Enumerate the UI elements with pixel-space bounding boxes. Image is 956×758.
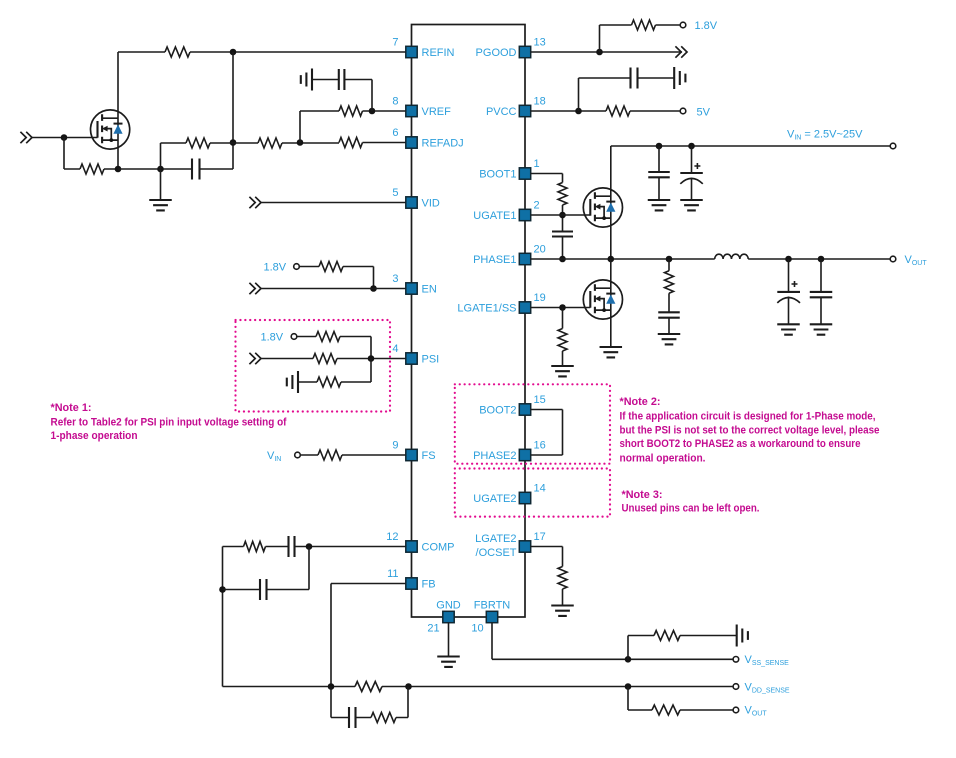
resistor R12 (318, 450, 342, 460)
node VOUT C11 junction (818, 256, 825, 263)
pin 11 FB (406, 578, 417, 589)
svg-text:18: 18 (534, 96, 546, 108)
wire C11 output cap (820, 259, 822, 324)
svg-text:Unused pins can be left open.: Unused pins can be left open. (622, 503, 760, 515)
input arrow PSI (249, 353, 261, 364)
resistor R6 (339, 138, 362, 148)
wire PSI pulldown (298, 359, 371, 383)
wire Q2 drain-source (610, 146, 612, 259)
terminal 5V (680, 108, 686, 114)
wire FBRTN to VSS_SENSE (492, 623, 733, 660)
pin 17 LGATE2/OCSET (519, 541, 530, 552)
svg-text:4: 4 (392, 343, 398, 355)
wire C10 output cap (788, 259, 790, 324)
capacitor C12 (snubber) (658, 312, 680, 317)
node ground junction (157, 166, 164, 173)
wire COMP row (223, 546, 406, 548)
ground (149, 200, 172, 210)
pin 8 VREF (406, 105, 417, 116)
dashed box Note1 (PSI network) (236, 320, 391, 412)
node R2-REFADJ junction (230, 139, 237, 146)
capacitor C4 (260, 579, 267, 600)
svg-text:12: 12 (386, 531, 398, 543)
svg-text:REFADJ: REFADJ (422, 138, 464, 150)
ground (551, 366, 574, 376)
svg-text:7: 7 (392, 37, 398, 49)
dashed box Note2 (BOOT2/PHASE2) (455, 384, 610, 463)
node comp mid junction (219, 586, 226, 593)
svg-text:FB: FB (422, 579, 436, 591)
wire C4 row (223, 547, 310, 590)
node COMP junction (306, 543, 313, 550)
svg-text:GND: GND (436, 600, 461, 612)
terminal VOUT sense (733, 707, 739, 713)
ground (648, 200, 671, 210)
wire PVCC cap branch (579, 78, 675, 111)
node REFIN-R2 junction (230, 49, 237, 56)
node boot-phase junction (559, 256, 566, 263)
pin 21 GND (443, 611, 454, 622)
pin 18 PVCC (519, 105, 530, 116)
svg-text:*Note 1:: *Note 1: (51, 402, 92, 414)
wire VOUT sense branch (628, 687, 733, 711)
node VOUT C10 junction (785, 256, 792, 263)
node VIN C9 junction (688, 143, 695, 150)
ground (right facing) (674, 67, 685, 89)
resistor R3 (80, 164, 104, 174)
svg-text:UGATE1: UGATE1 (473, 210, 516, 222)
svg-text:16: 16 (534, 440, 546, 452)
wire VSS RC branch (628, 636, 737, 660)
svg-text:5: 5 (392, 187, 398, 199)
capacitor C6 (631, 68, 638, 89)
svg-text:13: 13 (534, 37, 546, 49)
svg-text:VID: VID (422, 198, 440, 210)
wire VID (261, 202, 406, 204)
node VREF cap junction (369, 108, 376, 115)
capacitor C7 (boot) (552, 232, 573, 237)
wire C9 input cap (691, 146, 693, 200)
svg-text:19: 19 (534, 292, 546, 304)
svg-text:Refer to Table2 for PSI pin in: Refer to Table2 for PSI pin input voltag… (51, 417, 287, 429)
pin 1 BOOT1 (519, 168, 530, 179)
wire PSI pullup (297, 337, 371, 359)
svg-text:1.8V: 1.8V (261, 332, 284, 344)
node VIN C8 junction (656, 143, 663, 150)
node phase Q2 junction (608, 256, 615, 263)
svg-text:1: 1 (534, 158, 540, 170)
resistor R9 (316, 332, 340, 342)
resistor R16 (654, 631, 680, 641)
wire PHASE1 (531, 258, 891, 260)
node PSI junction (368, 355, 375, 362)
resistor R15 (371, 713, 396, 723)
ground (680, 200, 703, 210)
capacitor C2 (339, 69, 345, 90)
ground (810, 324, 833, 334)
svg-text:VREF: VREF (422, 106, 452, 118)
wire bottom node row (118, 168, 233, 170)
terminal VDD_SENSE (733, 684, 739, 690)
resistor R14 (355, 682, 382, 692)
wire LGATE1 (531, 307, 591, 309)
svg-text:1.8V: 1.8V (695, 20, 718, 32)
wire REFIN net horizontal (118, 51, 406, 53)
wire FB (331, 584, 406, 687)
svg-text:10: 10 (471, 623, 483, 635)
terminal 1.8V PSI (291, 334, 297, 340)
wire FS (300, 454, 405, 456)
wire VREF row (300, 111, 406, 143)
node LGATE1 junction (559, 304, 566, 311)
transistor Q3 (low side) (583, 280, 622, 319)
svg-text:9: 9 (392, 440, 398, 452)
wire feedback bottom row (223, 686, 734, 688)
wire GND stem (448, 623, 450, 657)
resistor R21 (SS) (558, 329, 567, 352)
pin 9 FS (406, 449, 417, 460)
pin 14 UGATE2 (519, 492, 530, 503)
pin 3 EN (406, 283, 417, 294)
svg-text:1-phase operation: 1-phase operation (51, 430, 138, 442)
node VDD junction (625, 683, 632, 690)
wire PSI (261, 358, 406, 360)
wire gate input (32, 137, 98, 139)
svg-text:VSS_SENSE: VSS_SENSE (745, 654, 790, 667)
pin 6 REFADJ (406, 137, 417, 148)
svg-text:VIN: VIN (267, 450, 281, 463)
svg-text:1.8V: 1.8V (264, 262, 287, 274)
ground (777, 324, 800, 334)
resistor R22 (snubber) (665, 271, 674, 294)
wire EN (261, 288, 406, 290)
svg-text:EN: EN (422, 284, 437, 296)
ground (right facing) (737, 625, 748, 647)
wire R2 branch vertical (232, 52, 234, 169)
output arrow PGOOD (675, 46, 687, 57)
resistor R19 (606, 106, 630, 116)
svg-text:normal operation.: normal operation. (620, 452, 706, 464)
input arrow VID (249, 197, 261, 208)
svg-text:*Note 2:: *Note 2: (620, 396, 661, 408)
svg-text:PHASE2: PHASE2 (473, 450, 516, 462)
capacitor C8 (648, 172, 670, 177)
node FB bottom junction (328, 683, 335, 690)
pin 13 PGOOD (519, 46, 530, 57)
svg-text:REFIN: REFIN (422, 47, 455, 59)
wire C8 input cap (658, 146, 660, 200)
wire BOOT1 (531, 174, 563, 260)
input arrow EN (249, 283, 261, 294)
wire PVCC (531, 110, 681, 112)
wire PGOOD (531, 51, 682, 53)
wire PGOOD pullup (600, 25, 681, 52)
input arrow gate (20, 132, 32, 143)
pin 16 PHASE2 (519, 449, 530, 460)
pin 20 PHASE1 (519, 253, 530, 264)
ground (658, 334, 681, 344)
svg-text:LGATE2: LGATE2 (475, 533, 516, 545)
svg-text:17: 17 (534, 531, 546, 543)
svg-text:*Note 3:: *Note 3: (622, 489, 663, 501)
wire ground stem (160, 143, 162, 200)
terminal 1.8V EN (294, 264, 300, 270)
node PGOOD junction (596, 49, 603, 56)
inductor L1 (715, 254, 749, 259)
capacitor C11 (810, 292, 833, 297)
svg-text:LGATE1/SS: LGATE1/SS (457, 303, 516, 315)
pin 4 PSI (406, 353, 417, 364)
resistor R17 (652, 705, 680, 715)
capacitor C10 polar plus (792, 281, 798, 287)
svg-text:VDD_SENSE: VDD_SENSE (745, 682, 790, 695)
resistor R10 (313, 354, 337, 364)
resistor R5 (258, 138, 282, 148)
wire BOOT2-PHASE2 short (531, 410, 563, 456)
ground (600, 347, 623, 357)
pin 12 COMP (406, 541, 417, 552)
capacitor C1 (192, 159, 200, 180)
transistor Q2 (high side) (583, 188, 622, 227)
wire RC loop (331, 687, 408, 718)
ground (left facing) (301, 69, 312, 91)
resistor R1 (165, 47, 190, 57)
resistor R13 (244, 542, 266, 552)
svg-text:14: 14 (534, 483, 546, 495)
dashed box Note3 (UGATE2) (455, 469, 610, 517)
svg-text:11: 11 (387, 568, 398, 580)
svg-text:FS: FS (422, 450, 436, 462)
wire LGATE2/OCSET (531, 547, 563, 606)
svg-text:3: 3 (392, 273, 398, 285)
capacitor C3 (289, 536, 295, 557)
svg-text:21: 21 (427, 623, 439, 635)
resistor R23 (OCSET) (558, 567, 567, 590)
pin 7 REFIN (406, 46, 417, 57)
pin 5 VID (406, 197, 417, 208)
svg-text:6: 6 (392, 127, 398, 139)
wire EN pullup (299, 267, 373, 289)
ground (437, 657, 460, 667)
wire VIN rail (611, 145, 890, 147)
node EN junction (370, 285, 377, 292)
IC U1 body (412, 25, 526, 618)
svg-text:but the PSI is not set to the: but the PSI is not set to the correct vo… (620, 425, 880, 437)
resistor R11 (317, 377, 341, 387)
resistor R8 (319, 262, 343, 272)
svg-text:VOUT: VOUT (745, 705, 768, 718)
terminal VOUT (890, 256, 896, 262)
wire gate to R3 (64, 138, 118, 170)
node gate junction (61, 134, 68, 141)
pin 2 UGATE1 (519, 209, 530, 220)
ground (left facing) (287, 371, 298, 393)
node VSS junction (625, 656, 632, 663)
svg-text:/OCSET: /OCSET (476, 547, 517, 559)
node PVCC junction (575, 108, 582, 115)
node R14 out (405, 683, 412, 690)
svg-text:2: 2 (534, 200, 540, 212)
svg-text:UGATE2: UGATE2 (473, 493, 516, 505)
terminal VIN FS (295, 452, 301, 458)
ground (551, 606, 574, 616)
pin 15 BOOT2 (519, 404, 530, 415)
svg-text:15: 15 (534, 394, 546, 406)
node phase snubber junction (666, 256, 673, 263)
svg-text:VIN = 2.5V~25V: VIN = 2.5V~25V (787, 129, 863, 142)
wire Q3 drain-source (610, 259, 612, 347)
svg-text:PSI: PSI (422, 354, 440, 366)
svg-text:PGOOD: PGOOD (476, 47, 517, 59)
resistor R4 (186, 138, 210, 148)
capacitor C5 (349, 707, 356, 728)
wire UGATE1 (531, 214, 591, 216)
node BOOT1-UGATE1 junction (559, 212, 566, 219)
svg-text:COMP: COMP (422, 542, 455, 554)
wire comp left vertical (222, 547, 224, 687)
node R5-R6 junction (297, 139, 304, 146)
svg-text:VOUT: VOUT (905, 254, 928, 267)
svg-text:If the application circuit is: If the application circuit is designed f… (620, 410, 876, 422)
wire VREF cap branch (312, 80, 372, 112)
pin 10 FBRTN (486, 611, 497, 622)
resistor R7 (339, 106, 362, 116)
pin 19 LGATE1/SS (519, 302, 530, 313)
capacitor C9 polar plus (694, 163, 700, 169)
terminal VIN (890, 143, 896, 149)
svg-text:5V: 5V (697, 107, 711, 119)
node R3 out (115, 166, 122, 173)
terminal 1.8V PGOOD (680, 22, 686, 28)
svg-text:short BOOT2 to PHASE2 as a wor: short BOOT2 to PHASE2 as a workaround to… (620, 438, 861, 450)
svg-text:20: 20 (534, 244, 546, 256)
wire REFIN net vertical (117, 52, 119, 169)
resistor R18 (632, 20, 656, 30)
svg-text:BOOT1: BOOT1 (479, 169, 516, 181)
wire REFADJ row (161, 142, 406, 145)
transistor Q1 (P-MOSFET) (91, 110, 130, 149)
svg-text:PHASE1: PHASE1 (473, 254, 516, 266)
svg-text:8: 8 (392, 96, 398, 108)
terminal VSS_SENSE (733, 657, 739, 663)
svg-text:FBRTN: FBRTN (474, 600, 511, 612)
wire soft-start branch (562, 308, 564, 367)
wire snubber (668, 259, 670, 334)
svg-text:PVCC: PVCC (486, 106, 517, 118)
resistor R20 (boot) (558, 183, 567, 206)
svg-text:BOOT2: BOOT2 (479, 405, 516, 417)
